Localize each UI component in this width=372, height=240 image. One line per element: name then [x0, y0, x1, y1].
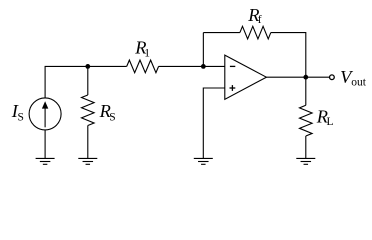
label RL: [316, 106, 334, 128]
op-amp minus sign: [230, 65, 235, 67]
wire feedback left vertical riser: [202, 33, 204, 67]
ground below RL: [296, 158, 315, 164]
wire op-amp noninverting input to ground riser: [203, 88, 225, 158]
svg-text:1: 1: [144, 47, 150, 59]
label RS: [99, 101, 116, 123]
op-amp plus sign: [230, 85, 236, 91]
wire feedback top right segment and right vertical down to output node: [271, 33, 306, 78]
resistor Rf: [240, 26, 271, 39]
svg-text:L: L: [327, 116, 334, 128]
op-amp U1 triangle: [225, 55, 267, 99]
node junction dot at feedback tap: [201, 64, 206, 69]
node junction dot at output: [303, 75, 308, 80]
wire feedback top left segment: [203, 32, 240, 34]
wire RL bottom to ground: [305, 136, 307, 158]
wire current source bottom to ground: [44, 130, 46, 159]
label R1: [134, 38, 150, 60]
resistor R1: [127, 60, 159, 73]
svg-text:out: out: [351, 76, 367, 88]
resistor RS: [82, 95, 95, 126]
wire RL top stem: [305, 77, 307, 105]
wire RS bottom to ground: [87, 126, 89, 159]
output terminal open circle: [330, 75, 335, 80]
ground below current source: [36, 158, 55, 164]
current source IS arrow shaft: [44, 108, 46, 128]
label Rf: [247, 5, 262, 26]
wire from R1 right to op-amp inverting input: [159, 65, 225, 67]
current source IS circle: [29, 98, 61, 130]
svg-text:S: S: [18, 112, 24, 124]
wire op-amp output to terminal: [266, 76, 329, 78]
label Vout: [340, 67, 367, 88]
resistor RL: [300, 105, 313, 136]
current source IS arrowhead: [42, 101, 48, 108]
wire main input net from current source top corner to R1 left: [45, 66, 127, 98]
ground below RS: [78, 158, 97, 164]
ground below op-amp plus input: [194, 158, 213, 164]
svg-text:S: S: [109, 111, 115, 123]
wire RS top stem: [87, 66, 89, 95]
node junction dot at RS tap: [85, 64, 90, 69]
svg-text:f: f: [258, 14, 262, 26]
label IS: [11, 101, 24, 124]
